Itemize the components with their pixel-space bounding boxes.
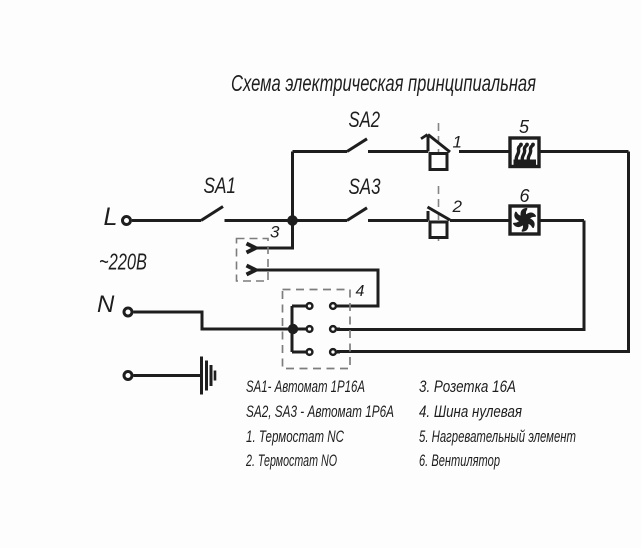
label L (104, 203, 118, 231)
legend SA1 (246, 377, 365, 396)
socket 3 top contact (247, 244, 256, 253)
svg-text:N: N (97, 291, 115, 318)
wire SA3 line left (293, 219, 348, 222)
wire outer return loop (337, 152, 629, 352)
svg-text:6. Вентилятор: 6. Вентилятор (419, 451, 500, 470)
svg-text:Схема электрическая принципиал: Схема электрическая принципиальная (231, 70, 536, 96)
label N (97, 291, 115, 318)
wire SA3 to thermostat 2 (368, 219, 428, 222)
wire junction to socket top contact (256, 221, 293, 249)
wire SA2 line left (293, 150, 348, 153)
heater box 5 (нагревательный элемент) (510, 138, 539, 167)
label SA3 (349, 174, 382, 199)
svg-text:SA3: SA3 (349, 174, 382, 199)
svg-text:2: 2 (452, 197, 463, 216)
svg-text:SA2, SA3 - Автомат 1Р6А: SA2, SA3 - Автомат 1Р6А (246, 402, 394, 421)
bus contact top-right (330, 303, 336, 309)
label 3 (270, 223, 280, 242)
svg-text:5: 5 (519, 117, 530, 137)
title: Схема электрическая принципиальная (231, 70, 536, 96)
node bus junction (288, 324, 298, 334)
legend thermostat NO (245, 451, 337, 470)
svg-text:3. Розетка 16А: 3. Розетка 16А (419, 377, 516, 396)
legend thermostat NC (246, 427, 344, 446)
bus contact middle-right (330, 326, 336, 332)
label SA1 (204, 173, 237, 198)
thermostat 2 (NO contact) (428, 186, 451, 241)
wire socket bottom to neutral bus (256, 270, 379, 306)
legend SA2 SA3 (246, 402, 394, 421)
ground symbol (202, 357, 216, 395)
svg-text:6: 6 (520, 186, 531, 206)
svg-text:SA2: SA2 (349, 107, 381, 132)
svg-text:4: 4 (356, 283, 365, 300)
fan box 6 (вентилятор) (510, 206, 539, 234)
svg-text:SA1: SA1 (204, 173, 237, 198)
bus contact bottom-right (330, 349, 336, 355)
bus contact top-left (307, 303, 313, 309)
wire fan to right (539, 219, 584, 222)
wire thermostat 2 to fan (450, 219, 510, 222)
label 5 (519, 117, 530, 137)
label 1 (453, 133, 462, 152)
wire to ground (134, 374, 202, 377)
wire L to SA1 (132, 219, 201, 222)
label SA2 (349, 107, 381, 132)
legend rozetka (419, 377, 516, 396)
wire bus left bracket (292, 306, 309, 352)
thermostat 1 (NC contact) (421, 123, 450, 173)
label 2 (452, 197, 463, 216)
wire SA2 to thermostat 1 (368, 150, 428, 153)
wire riser junction to SA2 line (291, 152, 294, 221)
wire heater to right edge (539, 150, 629, 153)
label 6 (520, 186, 531, 206)
svg-text:5. Нагревательный элемент: 5. Нагревательный элемент (419, 427, 576, 446)
legend fan (419, 451, 500, 470)
socket 3 dashed box (237, 239, 269, 282)
wire bus right stubs (334, 306, 340, 352)
switch SA1 (201, 207, 223, 221)
wire N to bus (134, 312, 293, 329)
switch SA2 (347, 139, 367, 152)
neutral bus 4 dashed box (283, 290, 351, 369)
svg-text:L: L (104, 203, 118, 231)
switch SA3 (347, 208, 367, 221)
terminal L (123, 217, 131, 225)
svg-text:SA1- Автомат 1Р16А: SA1- Автомат 1Р16А (246, 377, 365, 396)
terminal ground (124, 372, 132, 380)
svg-text:~220В: ~220В (99, 249, 147, 275)
label 4 (356, 283, 365, 300)
svg-text:2. Термостат NO: 2. Термостат NO (245, 451, 337, 470)
svg-text:1. Термостат NC: 1. Термостат NC (246, 427, 344, 446)
bus contact bottom-left (307, 349, 313, 355)
node junction main (287, 215, 298, 226)
wire SA1 to junction (225, 219, 293, 222)
legend shina (419, 402, 522, 421)
label ~220В (99, 249, 147, 275)
svg-text:4. Шина нулевая: 4. Шина нулевая (419, 402, 522, 421)
wire thermostat 1 to heater (459, 150, 510, 153)
svg-text:3: 3 (270, 223, 280, 242)
terminal N (124, 308, 132, 316)
svg-text:1: 1 (453, 133, 462, 152)
wire inner return loop (337, 221, 584, 330)
bus contact middle-left (307, 326, 313, 332)
legend heater (419, 427, 576, 446)
socket 3 bottom contact (247, 266, 256, 275)
